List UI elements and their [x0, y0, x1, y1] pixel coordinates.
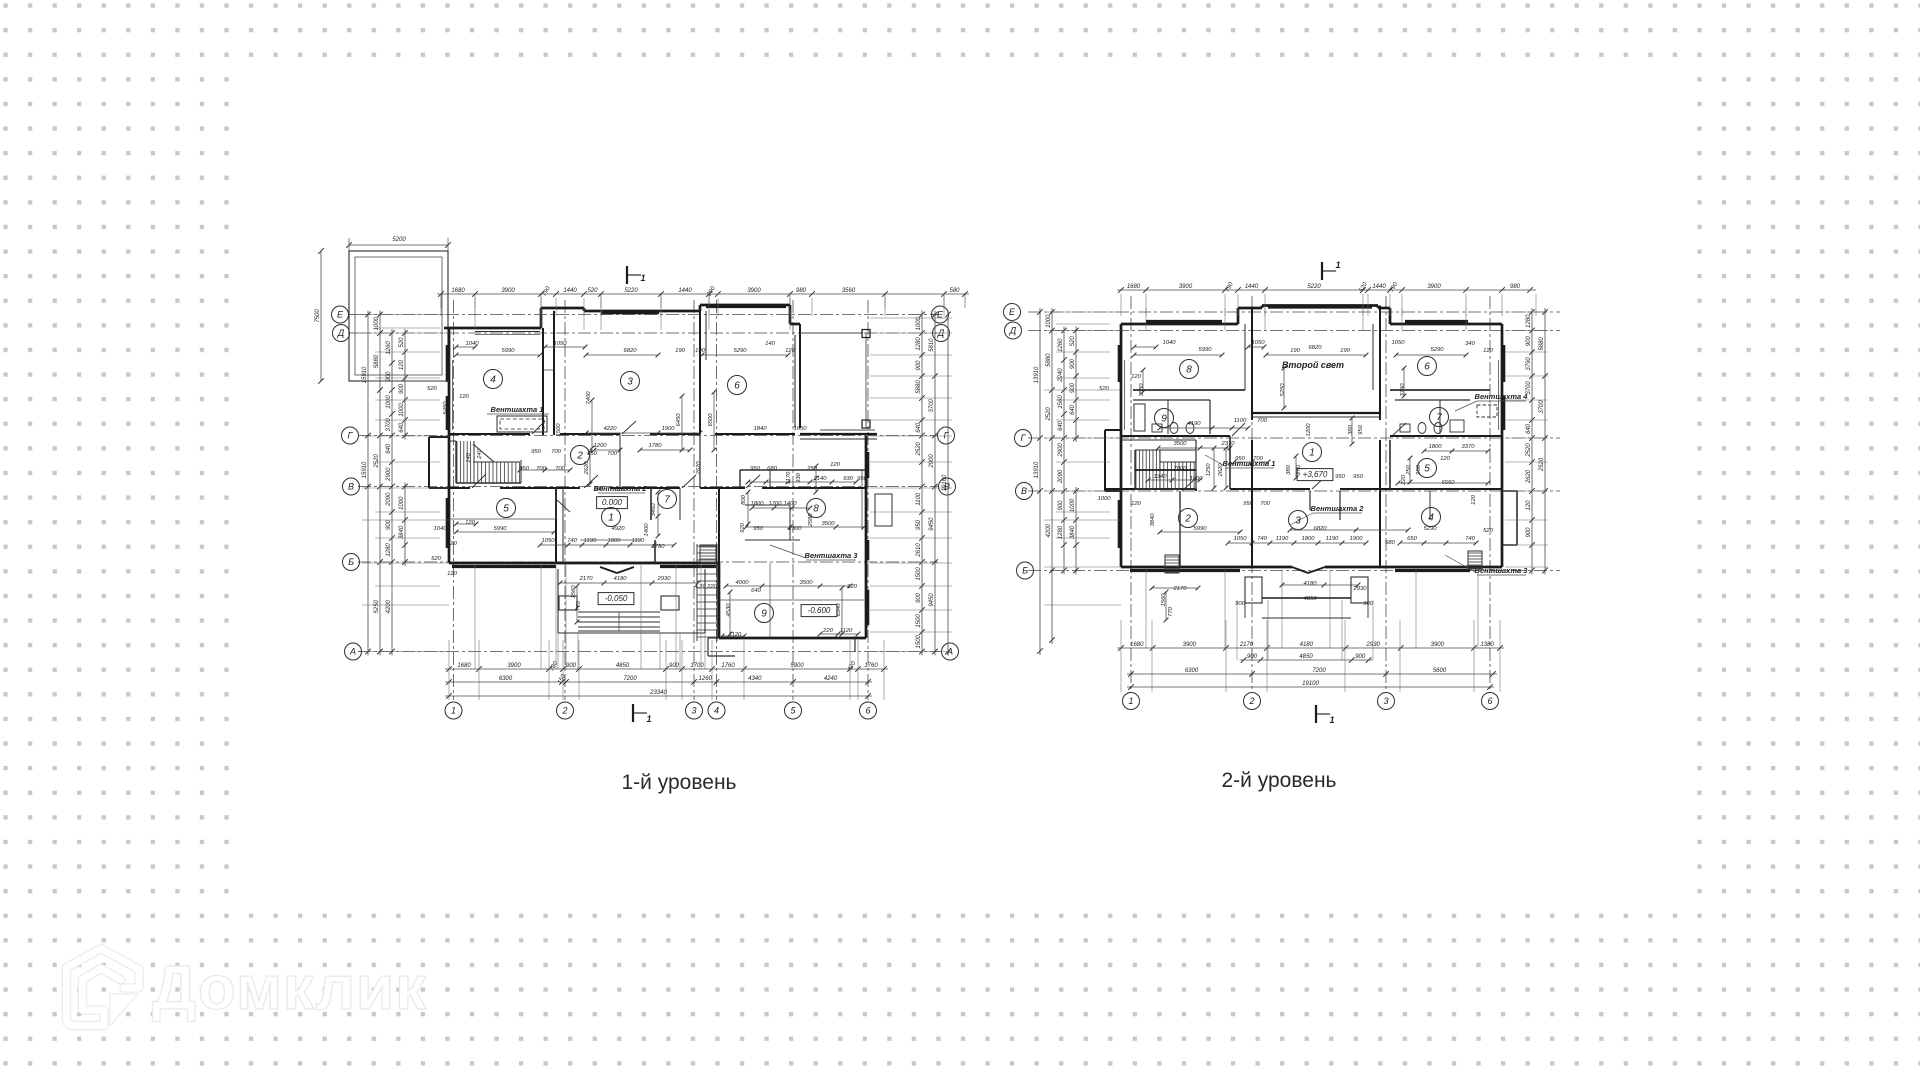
svg-text:1680: 1680: [1130, 642, 1144, 648]
top dimension chain plan2: [1117, 281, 1536, 293]
axis line 2 plan2: [1251, 296, 1253, 692]
interior wall room1/room7 plan1: [651, 488, 655, 563]
svg-text:4: 4: [714, 706, 719, 716]
svg-text:640: 640: [1070, 404, 1076, 415]
axis bubble А right plan1: [938, 643, 959, 660]
svg-text:2170: 2170: [1172, 586, 1187, 592]
bottom dimension chain row2 plan2: [1240, 654, 1373, 663]
svg-text:5880: 5880: [916, 380, 922, 394]
interior dimension lines plan2: [1132, 345, 1491, 623]
svg-text:3900: 3900: [1431, 642, 1445, 648]
svg-text:1040: 1040: [465, 341, 479, 347]
svg-text:9450: 9450: [929, 593, 935, 607]
ventilation shaft 3 plan2: [1445, 551, 1528, 575]
central wall axis3 plan2: [1373, 306, 1380, 568]
axis line 1 plan1: [453, 300, 455, 700]
svg-text:640: 640: [399, 422, 405, 433]
svg-text:1280: 1280: [916, 337, 922, 351]
left dimension column A plan1: [362, 311, 371, 656]
axis line 1 plan2: [1130, 296, 1132, 692]
svg-text:900: 900: [916, 360, 922, 371]
svg-text:640: 640: [386, 443, 392, 454]
svg-text:-0.600: -0.600: [808, 606, 831, 615]
svg-text:6450: 6450: [676, 413, 682, 427]
bottom dimension chain row2 plan1: [445, 673, 872, 685]
svg-text:2170: 2170: [578, 576, 593, 582]
ventilation shaft 4 plan2: [1455, 392, 1528, 417]
section mark 1 bottom plan1: [633, 704, 652, 724]
svg-text:1800: 1800: [1301, 536, 1315, 542]
svg-text:3: 3: [1295, 515, 1301, 526]
axis bubble Е left plan1: [332, 306, 359, 323]
svg-text:190: 190: [1290, 348, 1301, 354]
svg-text:950: 950: [1243, 501, 1254, 507]
svg-text:7: 7: [1436, 412, 1442, 423]
axis bubble 6 bottom plan2: [1482, 693, 1499, 710]
svg-text:1190: 1190: [632, 538, 645, 544]
svg-text:7400: 7400: [586, 391, 592, 405]
svg-text:2: 2: [576, 450, 583, 461]
svg-text:4180: 4180: [1303, 581, 1317, 587]
svg-text:Б: Б: [348, 557, 354, 567]
interior dimensions plan1: [427, 341, 868, 638]
svg-text:1260: 1260: [386, 341, 392, 355]
interior dimensions plan2: [1097, 340, 1493, 617]
svg-text:4200: 4200: [386, 599, 392, 613]
svg-text:700: 700: [536, 466, 547, 472]
room number 2 plan1: [571, 446, 590, 465]
svg-text:6: 6: [734, 380, 740, 391]
svg-text:1: 1: [640, 273, 645, 283]
svg-text:1: 1: [646, 714, 651, 724]
svg-text:1190: 1190: [584, 538, 597, 544]
svg-text:120: 120: [447, 571, 458, 577]
svg-text:8: 8: [1186, 364, 1192, 375]
svg-text:В: В: [1021, 486, 1027, 496]
axis bubble Д left plan1: [333, 325, 359, 342]
svg-text:6500: 6500: [708, 413, 714, 427]
svg-text:900: 900: [386, 371, 392, 382]
room number 4 plan1: [484, 370, 503, 389]
svg-text:1500: 1500: [556, 423, 562, 437]
axis bubble Г right plan1: [938, 427, 955, 444]
svg-text:Е: Е: [1009, 307, 1016, 317]
svg-text:Б: Б: [1022, 566, 1028, 576]
svg-text:3840: 3840: [1150, 513, 1156, 527]
svg-text:2090: 2090: [386, 492, 392, 507]
svg-text:900: 900: [399, 383, 405, 394]
svg-text:1050: 1050: [1251, 340, 1265, 346]
bathroom fixtures room7 plan2: [1400, 420, 1464, 434]
svg-text:2520: 2520: [1539, 457, 1545, 472]
svg-text:1040: 1040: [433, 526, 447, 532]
axis line В plan1: [358, 486, 938, 488]
outer wall bottom plan1: [449, 563, 719, 638]
svg-text:19100: 19100: [1302, 681, 1319, 687]
axis bubble 4 bottom plan1: [708, 702, 725, 719]
floor plan level 1: [315, 237, 1406, 724]
svg-text:2620: 2620: [584, 461, 590, 476]
room6 walls plan2: [1390, 390, 1490, 434]
svg-text:6820: 6820: [1313, 526, 1327, 532]
svg-text:+3,670: +3,670: [1303, 470, 1328, 479]
svg-text:1: 1: [1309, 447, 1315, 458]
svg-text:1780: 1780: [648, 443, 662, 449]
svg-text:5290: 5290: [1430, 347, 1444, 353]
svg-text:1: 1: [1329, 715, 1334, 725]
svg-text:650: 650: [1407, 536, 1418, 542]
svg-text:1380: 1380: [1480, 642, 1494, 648]
door leaves plan1: [472, 421, 760, 512]
svg-text:Вентшахта 2: Вентшахта 2: [1311, 504, 1365, 513]
svg-text:5220: 5220: [624, 288, 638, 294]
svg-text:5990: 5990: [501, 348, 515, 354]
svg-text:Вентшахта 1: Вентшахта 1: [491, 405, 544, 414]
svg-text:2520: 2520: [1526, 443, 1532, 458]
svg-text:3900: 3900: [1179, 284, 1193, 290]
svg-text:1000: 1000: [1046, 314, 1052, 328]
svg-text:900: 900: [386, 519, 392, 530]
svg-text:580: 580: [595, 486, 606, 492]
void balustrade второй свет plan2: [1252, 413, 1380, 417]
svg-text:1190: 1190: [1276, 536, 1289, 542]
svg-text:4200: 4200: [1046, 523, 1052, 537]
svg-text:900: 900: [1526, 336, 1532, 347]
room number 1 plan1: [602, 508, 621, 527]
svg-text:120: 120: [1131, 374, 1142, 380]
svg-text:1760: 1760: [864, 663, 878, 669]
svg-text:1440: 1440: [678, 288, 692, 294]
ventilation shaft 3 label plan1: [700, 545, 858, 563]
svg-text:15910: 15910: [362, 461, 368, 478]
svg-text:120: 120: [1440, 456, 1451, 462]
interior partitions room8 plan1: [745, 505, 800, 540]
svg-text:900: 900: [1526, 527, 1532, 538]
right dimension columns plan2: [1526, 308, 1548, 575]
extension lines right plan1: [870, 318, 952, 652]
svg-text:Вентшахта 1: Вентшахта 1: [1223, 459, 1276, 468]
outer wall top plan2: [1121, 306, 1502, 325]
entrance door plan1: [600, 567, 634, 573]
outer wall right upper plan1 (room6 wall): [795, 324, 800, 428]
svg-text:950: 950: [1235, 456, 1246, 462]
svg-text:930: 930: [796, 472, 802, 483]
svg-text:1800: 1800: [750, 501, 764, 507]
svg-text:800: 800: [741, 494, 747, 505]
axis bubble 1 bottom plan1: [445, 702, 462, 719]
svg-text:13910: 13910: [1034, 461, 1040, 478]
axis line 5 plan1: [792, 300, 794, 700]
svg-text:220: 220: [706, 584, 718, 590]
svg-text:4: 4: [1428, 512, 1434, 523]
interior wall room5/room1 plan1: [556, 488, 563, 563]
svg-text:640: 640: [1526, 423, 1532, 434]
svg-text:3840: 3840: [1070, 525, 1076, 539]
left dimension column B plan1: [374, 311, 383, 656]
svg-text:В: В: [348, 482, 354, 492]
svg-text:240: 240: [477, 448, 483, 460]
svg-text:1000: 1000: [374, 316, 380, 330]
axis bubble В plan2: [1016, 483, 1033, 500]
svg-text:120: 120: [1471, 494, 1477, 505]
outer wall top plan1: [444, 305, 800, 335]
svg-text:5810: 5810: [929, 338, 935, 352]
level label +3.670: [1297, 469, 1333, 481]
bottom dimension chain row1 plan2: [1117, 642, 1504, 651]
svg-text:900: 900: [1070, 358, 1076, 369]
section mark 1 bottom plan2: [1316, 705, 1335, 725]
extension lines bottom plan1: [449, 565, 884, 700]
svg-text:5220: 5220: [1307, 284, 1321, 290]
svg-text:4: 4: [490, 374, 496, 385]
svg-text:1650: 1650: [793, 426, 807, 432]
svg-text:0.000: 0.000: [602, 498, 623, 507]
svg-text:4180: 4180: [613, 576, 627, 582]
svg-text:1840: 1840: [753, 426, 767, 432]
svg-text:3530: 3530: [1139, 383, 1145, 397]
axis bubble Е plan2: [1004, 304, 1021, 321]
svg-text:1250: 1250: [1206, 463, 1212, 477]
svg-text:140: 140: [466, 452, 472, 463]
svg-text:120: 120: [1131, 501, 1142, 507]
svg-text:120: 120: [399, 359, 405, 370]
svg-text:1700: 1700: [690, 663, 704, 669]
svg-text:2930: 2930: [656, 576, 671, 582]
room number 3 plan1: [621, 372, 640, 391]
section mark 1 top plan2: [1322, 260, 1341, 280]
svg-text:19160: 19160: [942, 474, 948, 491]
svg-text:1000: 1000: [386, 395, 392, 409]
svg-text:2170: 2170: [1239, 642, 1254, 648]
svg-text:1: 1: [451, 706, 456, 716]
room number 8 plan2: [1180, 360, 1199, 379]
axis line 3 plan2: [1385, 296, 1387, 692]
extension lines top plan2: [1121, 294, 1536, 330]
svg-text:520: 520: [1070, 336, 1076, 347]
right dimension column A plan1: [916, 311, 925, 656]
floor plan level 2: [1004, 260, 1561, 725]
svg-text:2: 2: [1184, 513, 1191, 524]
walls axis Г plan2: [1121, 436, 1502, 440]
svg-text:1190: 1190: [1326, 536, 1339, 542]
svg-text:950: 950: [1353, 474, 1364, 480]
axis line Е plan1: [358, 314, 938, 316]
svg-text:3840: 3840: [399, 525, 405, 539]
svg-text:190: 190: [1340, 348, 1351, 354]
terrace edge lines plan1: [800, 330, 875, 431]
svg-text:Вентшахта 3: Вентшахта 3: [805, 551, 859, 560]
svg-text:640: 640: [751, 588, 762, 594]
svg-text:2930: 2930: [1352, 586, 1367, 592]
svg-text:4850: 4850: [1299, 654, 1313, 660]
svg-text:980: 980: [1510, 284, 1521, 290]
room number 2 plan2: [1179, 509, 1198, 528]
svg-text:950: 950: [916, 519, 922, 530]
axis line 4 plan1: [716, 300, 718, 700]
svg-text:2620: 2620: [1526, 469, 1532, 484]
svg-text:1260: 1260: [699, 676, 713, 682]
svg-text:4180: 4180: [1300, 642, 1314, 648]
svg-text:1680: 1680: [1127, 284, 1141, 290]
svg-text:900: 900: [916, 592, 922, 603]
svg-text:950: 950: [1416, 464, 1422, 475]
svg-text:220: 220: [1401, 474, 1407, 486]
axis line Б plan2: [1028, 570, 1560, 572]
svg-text:740: 740: [567, 538, 578, 544]
svg-text:120: 120: [1526, 500, 1532, 511]
svg-text:5450: 5450: [443, 401, 449, 415]
right dimension column B plan1: [929, 311, 938, 656]
axis bubble 5 bottom plan1: [785, 702, 802, 719]
left dimension column D plan1: [399, 329, 408, 566]
balcony plan2: [1245, 577, 1368, 618]
svg-text:5900: 5900: [790, 663, 804, 669]
svg-text:1-й уровень: 1-й уровень: [622, 771, 737, 794]
room number 1 plan2: [1303, 443, 1322, 462]
room number 3 plan2: [1289, 511, 1308, 530]
svg-text:700: 700: [1253, 456, 1264, 462]
room number 5 plan1: [497, 499, 516, 518]
svg-text:5600: 5600: [1433, 668, 1447, 674]
svg-text:4220: 4220: [603, 426, 617, 432]
svg-text:1280: 1280: [386, 543, 392, 557]
room number 6 plan2: [1418, 357, 1437, 376]
bottom dimension chain row3 plan2: [1127, 668, 1497, 677]
carport height dimension 7500: [315, 248, 324, 384]
axis bubble 1 bottom plan2: [1123, 693, 1140, 710]
room number 5 plan2: [1418, 459, 1437, 478]
wall on axis Г right plan1: [800, 434, 877, 439]
svg-text:900: 900: [1235, 601, 1246, 607]
room number 9 plan2: [1155, 409, 1174, 428]
svg-text:950: 950: [750, 466, 761, 472]
svg-text:380: 380: [1286, 464, 1292, 475]
svg-text:2900: 2900: [1058, 443, 1064, 458]
svg-text:5290: 5290: [733, 348, 747, 354]
svg-text:5990: 5990: [493, 526, 507, 532]
svg-text:900: 900: [669, 663, 680, 669]
svg-text:980: 980: [796, 288, 807, 294]
svg-text:950: 950: [1335, 474, 1346, 480]
svg-text:3: 3: [691, 706, 696, 716]
svg-text:1400: 1400: [783, 501, 797, 507]
carport width dimension 5200: [346, 237, 451, 251]
svg-text:7500: 7500: [315, 309, 321, 323]
svg-text:1050: 1050: [541, 538, 555, 544]
svg-text:5290: 5290: [1423, 526, 1437, 532]
svg-text:1400: 1400: [644, 523, 650, 537]
room number 9 plan1: [755, 604, 774, 623]
room number 4 plan2: [1422, 508, 1441, 527]
svg-text:1: 1: [1128, 696, 1133, 706]
svg-text:1: 1: [608, 512, 614, 523]
stair bay wall plan1: [429, 437, 449, 488]
svg-text:1: 1: [1335, 260, 1340, 270]
svg-text:1760: 1760: [721, 663, 735, 669]
svg-text:2900: 2900: [929, 454, 935, 469]
axis bubble Г plan2: [1015, 430, 1032, 447]
svg-text:3370: 3370: [1461, 444, 1475, 450]
axis bubble А left plan1: [345, 643, 362, 660]
interior wall on axis В plan1: [429, 487, 866, 489]
svg-text:1050: 1050: [553, 341, 567, 347]
outer wall bottom-right room9 plan1: [708, 638, 866, 656]
svg-text:13910: 13910: [1034, 366, 1040, 383]
svg-text:580: 580: [949, 288, 960, 294]
axis bubble 2 bottom plan2: [1244, 693, 1261, 710]
svg-text:1500: 1500: [916, 567, 922, 581]
svg-text:1040: 1040: [1162, 340, 1176, 346]
extension lines right plan2: [1505, 312, 1548, 567]
bottom dimension chain row1 plan1: [445, 660, 888, 672]
walls axis В plan2: [1105, 489, 1502, 491]
outer wall right plan2: [1499, 324, 1518, 567]
svg-text:3900: 3900: [1183, 642, 1197, 648]
svg-text:1800: 1800: [607, 538, 621, 544]
staircase plan1: [449, 441, 521, 483]
svg-text:5: 5: [1424, 463, 1430, 474]
svg-text:1000: 1000: [399, 496, 405, 510]
svg-text:5880: 5880: [1539, 337, 1545, 351]
axis bubble В right plan1: [938, 478, 956, 495]
svg-text:220: 220: [846, 584, 858, 590]
svg-text:950: 950: [1358, 424, 1364, 435]
svg-text:4920: 4920: [611, 526, 625, 532]
staircase plan2: [1135, 450, 1196, 489]
room number 8 plan1: [807, 499, 826, 518]
svg-text:1500: 1500: [916, 634, 922, 648]
svg-text:2520: 2520: [374, 454, 380, 469]
svg-text:1500: 1500: [916, 614, 922, 628]
balcony door plan2: [1292, 567, 1325, 573]
svg-text:1280: 1280: [1526, 314, 1532, 328]
svg-text:3700: 3700: [1539, 400, 1545, 414]
svg-text:2620: 2620: [1218, 463, 1224, 478]
svg-text:120: 120: [830, 462, 841, 468]
svg-text:Д: Д: [337, 328, 345, 338]
svg-text:1560: 1560: [1058, 395, 1064, 409]
axis line 3 plan1: [693, 300, 695, 700]
svg-text:5990: 5990: [1198, 347, 1212, 353]
svg-text:640: 640: [916, 422, 922, 433]
svg-text:3500: 3500: [1173, 441, 1187, 447]
left dimension columns plan2: [1034, 308, 1079, 655]
door leaves plan2: [1182, 423, 1406, 491]
svg-text:9: 9: [761, 608, 767, 619]
svg-text:9: 9: [1161, 413, 1167, 424]
svg-text:6300: 6300: [499, 676, 513, 682]
axis bubble Б plan2: [1017, 562, 1034, 579]
white drawing sheet: [229, 66, 1693, 908]
svg-text:3900: 3900: [507, 663, 521, 669]
svg-text:1100: 1100: [1234, 418, 1247, 424]
svg-text:3500: 3500: [799, 580, 813, 586]
room8 walls plan2: [1133, 390, 1245, 434]
svg-text:2900: 2900: [386, 467, 392, 482]
svg-text:250: 250: [1406, 464, 1412, 476]
svg-text:Второй свет: Второй свет: [1282, 360, 1344, 370]
svg-text:140: 140: [765, 341, 776, 347]
svg-text:3: 3: [627, 376, 633, 387]
svg-text:2610: 2610: [916, 543, 922, 558]
axis bubble 3 bottom plan1: [686, 702, 703, 719]
entrance porch plan1: [558, 569, 705, 633]
svg-text:1440: 1440: [1372, 284, 1386, 290]
svg-text:950: 950: [857, 476, 868, 482]
svg-text:900: 900: [1058, 500, 1064, 511]
svg-text:270: 270: [1296, 464, 1302, 476]
axis line Г plan1: [358, 435, 938, 437]
